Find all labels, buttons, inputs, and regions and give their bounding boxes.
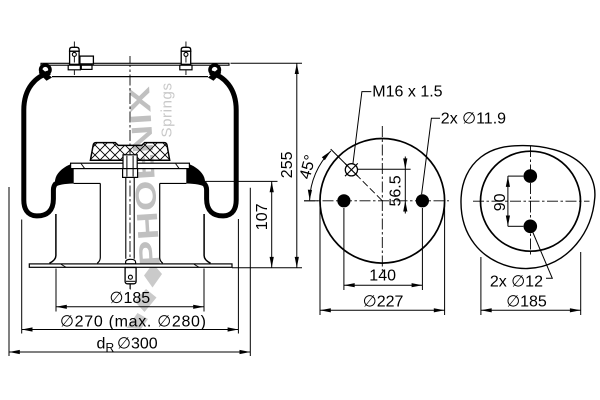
- bolt hole right: [416, 194, 429, 207]
- piston centre tube: [125, 177, 127, 259]
- bellows outline from below: [461, 146, 595, 269]
- bolt hole bottom: [524, 220, 538, 234]
- svg-text:d: d: [97, 335, 106, 352]
- dimension 90: [508, 176, 524, 226]
- centrelines: [381, 126, 383, 271]
- M16 air fitting: [345, 164, 357, 176]
- centre bolt head: [123, 155, 137, 169]
- watermark PHOENIX: [124, 82, 176, 329]
- bellows left wedge: [55, 164, 74, 187]
- centre bolt shank: [126, 156, 128, 177]
- 45° angle arc: [310, 151, 331, 200]
- piston wall right: [160, 183, 163, 263]
- svg-text:Springs: Springs: [159, 82, 176, 137]
- svg-text:140: 140: [369, 267, 396, 284]
- bottom stud: [125, 268, 136, 284]
- svg-text:∅185: ∅185: [110, 290, 151, 307]
- top plate left rolled edge: [41, 65, 50, 74]
- bellows right wedge: [186, 164, 205, 187]
- centre bolt nut: [123, 169, 138, 178]
- dimension Ø227: [320, 202, 445, 315]
- svg-text:∅227: ∅227: [363, 293, 404, 310]
- piston skirt left: [49, 214, 56, 263]
- 45° dashed radial: [356, 174, 383, 201]
- bellows left outer wall: [24, 73, 56, 216]
- piston skirt right: [204, 214, 211, 263]
- dimension Ø185 (left view): [56, 269, 204, 312]
- top-view circle Ø227: [320, 139, 445, 264]
- svg-text:∅300: ∅300: [117, 335, 158, 352]
- 45° radial extension: [331, 149, 347, 165]
- air fitting nut under plate: [81, 65, 92, 69]
- svg-text:2x ∅12: 2x ∅12: [490, 273, 543, 290]
- bellows top surface line: [52, 76, 208, 78]
- svg-text:∅270 (max. ∅280): ∅270 (max. ∅280): [60, 314, 207, 331]
- dimension dR Ø300: [9, 187, 250, 356]
- bottom boss: [126, 259, 136, 264]
- top plate right rolled edge: [210, 65, 219, 74]
- piston shoulder lines: [74, 182, 101, 184]
- stud right (M12 bolt): [180, 42, 192, 76]
- bumper (rubber buffer, crosshatched): [90, 143, 169, 161]
- svg-text:∅185: ∅185: [506, 294, 547, 311]
- dimension 56.5: [358, 168, 411, 170]
- centrelines: [530, 146, 532, 257]
- bolt hole top: [524, 169, 538, 183]
- svg-text:56.5: 56.5: [388, 175, 405, 206]
- svg-text:2x ∅11.9: 2x ∅11.9: [441, 110, 506, 127]
- svg-text:255: 255: [279, 151, 296, 178]
- piston flange: [71, 163, 190, 168]
- dimension 107: [203, 181, 278, 267]
- svg-text:R: R: [106, 341, 115, 355]
- watermark bird logo: [144, 264, 162, 288]
- air fitting block: [80, 56, 94, 64]
- leader M16 x 1.5: [353, 92, 371, 164]
- dimension Ø185 (right view): [481, 252, 581, 315]
- dimension Ø270 (max. Ø280): [22, 219, 239, 334]
- leader 2x Ø12: [533, 233, 552, 279]
- leader 2x Ø11.9: [422, 118, 440, 194]
- piston wall left: [97, 183, 100, 263]
- dimension 255: [231, 63, 303, 268]
- stud left (M12 bolt): [68, 42, 80, 76]
- piston circle Ø185: [481, 151, 581, 251]
- base plate: [29, 264, 232, 267]
- dimension 140: [344, 208, 423, 290]
- top plate: [41, 63, 229, 65]
- bolt hole left: [337, 194, 350, 207]
- svg-text:90: 90: [492, 193, 509, 211]
- bellows right outer wall: [204, 73, 236, 216]
- centerline axis: [129, 56, 131, 290]
- svg-text:107: 107: [254, 203, 271, 230]
- svg-text:M16 x 1.5: M16 x 1.5: [372, 84, 442, 101]
